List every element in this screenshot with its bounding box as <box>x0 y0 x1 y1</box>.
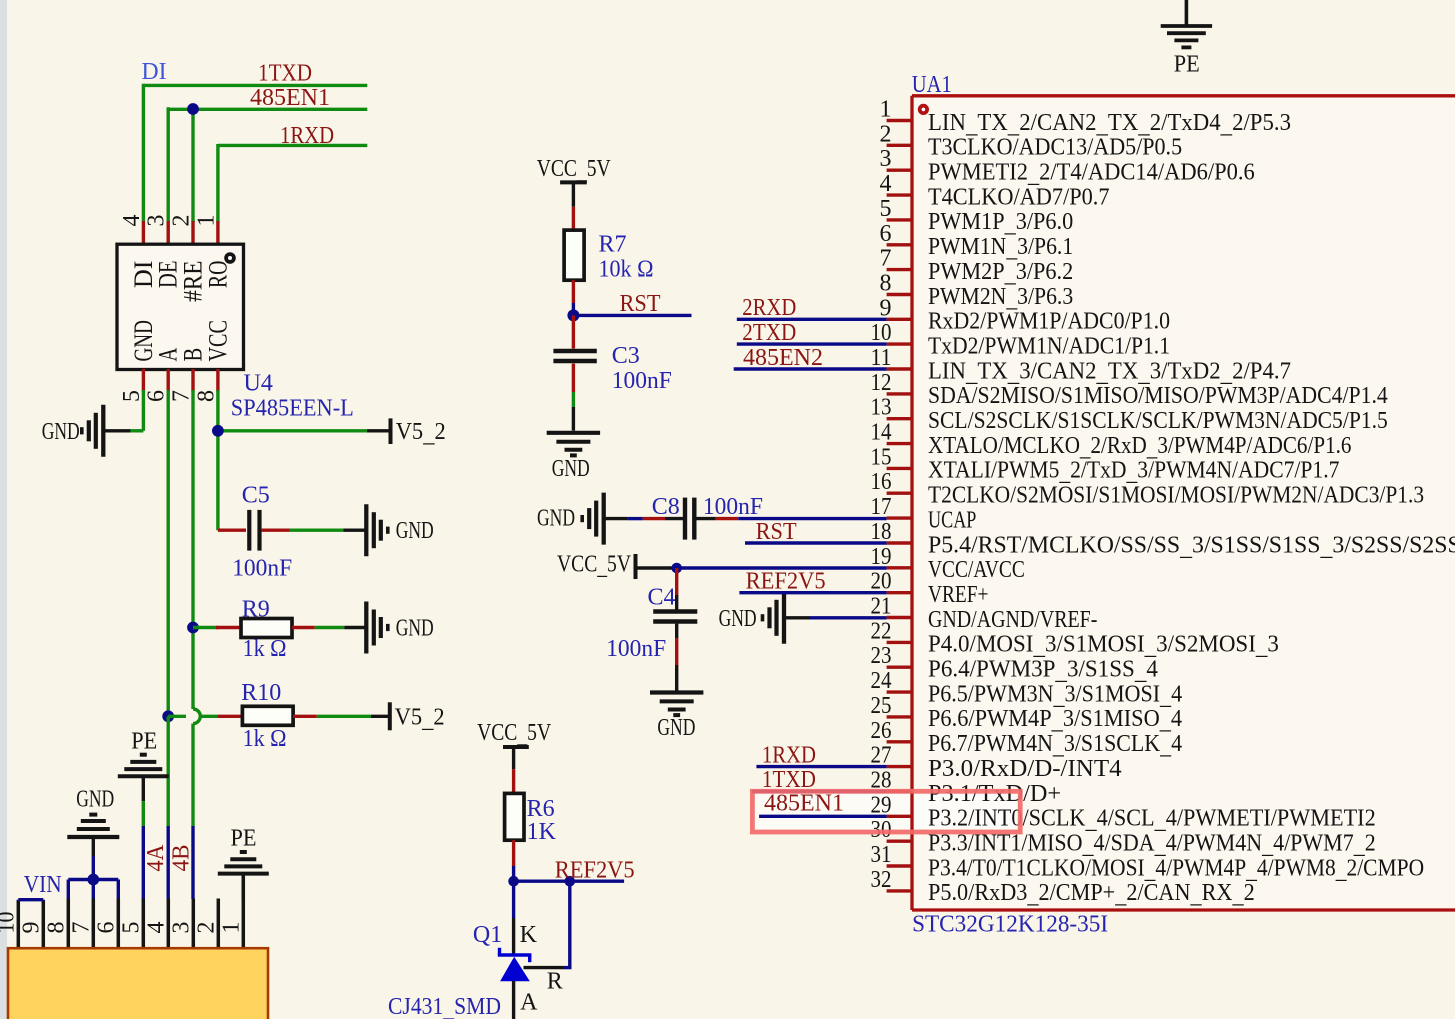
svg-text:10k Ω: 10k Ω <box>599 257 654 283</box>
svg-text:A: A <box>520 990 538 1016</box>
svg-text:GND: GND <box>42 419 80 445</box>
svg-text:6: 6 <box>144 390 170 402</box>
svg-text:14: 14 <box>871 420 892 446</box>
svg-text:RO: RO <box>203 261 232 289</box>
svg-text:P3.1/TxD/D+: P3.1/TxD/D+ <box>928 781 1061 807</box>
svg-text:C4: C4 <box>648 585 676 611</box>
svg-text:7: 7 <box>880 246 892 272</box>
svg-text:17: 17 <box>871 494 892 520</box>
svg-text:SCL/S2SCLK/S1SCLK/SCLK/PWM3N/A: SCL/S2SCLK/S1SCLK/SCLK/PWM3N/ADC5/P1.5 <box>928 408 1388 434</box>
svg-text:11: 11 <box>871 345 892 371</box>
svg-text:R: R <box>547 969 563 995</box>
svg-text:PE: PE <box>1174 52 1200 78</box>
svg-text:PE: PE <box>231 826 257 852</box>
svg-text:VCC/AVCC: VCC/AVCC <box>928 557 1025 583</box>
svg-text:21: 21 <box>871 594 892 620</box>
svg-text:100nF: 100nF <box>612 368 672 394</box>
svg-text:8: 8 <box>193 390 219 402</box>
svg-text:2TXD: 2TXD <box>742 320 796 346</box>
svg-text:VCC: VCC <box>203 320 232 361</box>
svg-text:UA1: UA1 <box>912 72 952 98</box>
svg-text:15: 15 <box>871 444 892 470</box>
svg-text:REF2V5: REF2V5 <box>555 858 635 884</box>
svg-text:PE: PE <box>131 729 157 755</box>
svg-text:VCC_5V: VCC_5V <box>557 551 632 580</box>
svg-text:9: 9 <box>18 922 44 934</box>
svg-text:RST: RST <box>756 519 797 545</box>
svg-text:DI: DI <box>142 59 167 85</box>
svg-text:8: 8 <box>43 922 69 934</box>
svg-text:22: 22 <box>871 618 892 644</box>
svg-text:SDA/S2MISO/S1MISO/MISO/PWM3P/A: SDA/S2MISO/S1MISO/MISO/PWM3P/ADC4/P1.4 <box>928 383 1388 409</box>
svg-text:P5.0/RxD3_2/CMP+_2/CAN_RX_2: P5.0/RxD3_2/CMP+_2/CAN_RX_2 <box>928 880 1255 909</box>
svg-text:GND: GND <box>719 606 757 632</box>
svg-text:U4: U4 <box>244 371 273 397</box>
svg-text:20: 20 <box>871 569 892 595</box>
svg-text:2: 2 <box>193 922 219 934</box>
svg-text:4A: 4A <box>143 844 169 872</box>
svg-text:10: 10 <box>0 912 19 934</box>
svg-text:6: 6 <box>93 922 119 934</box>
svg-text:RST: RST <box>620 291 661 317</box>
svg-text:1: 1 <box>193 215 219 227</box>
svg-text:12: 12 <box>871 370 892 396</box>
svg-text:V5_2: V5_2 <box>396 419 446 448</box>
svg-text:TxD2/PWM1N/ADC1/P1.1: TxD2/PWM1N/ADC1/P1.1 <box>928 333 1170 359</box>
svg-text:18: 18 <box>871 519 892 545</box>
svg-text:1RXD: 1RXD <box>280 123 334 149</box>
svg-text:P3.0/RxD/D-/INT4: P3.0/RxD/D-/INT4 <box>928 756 1122 782</box>
svg-text:REF2V5: REF2V5 <box>746 568 826 594</box>
svg-text:27: 27 <box>871 743 892 769</box>
svg-text:GND/AGND/VREF-: GND/AGND/VREF- <box>928 607 1097 633</box>
svg-text:8: 8 <box>880 271 892 297</box>
svg-text:1k Ω: 1k Ω <box>243 726 287 752</box>
svg-text:25: 25 <box>871 693 892 719</box>
svg-text:23: 23 <box>871 643 892 669</box>
svg-text:SP485EEN-L: SP485EEN-L <box>231 396 354 422</box>
svg-text:R7: R7 <box>599 232 627 258</box>
svg-text:1k Ω: 1k Ω <box>243 636 287 662</box>
svg-text:4: 4 <box>119 215 145 227</box>
svg-text:2: 2 <box>880 121 892 147</box>
svg-text:T2CLKO/S2MOSI/S1MOSI/MOSI/PWM2: T2CLKO/S2MOSI/S1MOSI/MOSI/PWM2N/ADC3/P1.… <box>928 483 1424 509</box>
svg-text:10: 10 <box>871 320 892 346</box>
svg-text:GND: GND <box>657 715 695 741</box>
svg-text:C8: C8 <box>652 494 680 520</box>
svg-text:GND: GND <box>537 506 575 532</box>
svg-text:485EN1: 485EN1 <box>250 85 330 111</box>
svg-text:3: 3 <box>168 922 194 934</box>
svg-text:2RXD: 2RXD <box>742 295 796 321</box>
svg-text:24: 24 <box>871 668 892 694</box>
svg-text:C3: C3 <box>612 343 640 369</box>
svg-text:GND: GND <box>396 616 434 642</box>
svg-text:VREF+: VREF+ <box>928 582 989 608</box>
svg-text:9: 9 <box>880 295 892 321</box>
svg-text:R9: R9 <box>242 597 270 623</box>
svg-text:32: 32 <box>871 867 892 893</box>
svg-text:GND: GND <box>396 518 434 544</box>
svg-text:4: 4 <box>880 171 892 197</box>
svg-text:T3CLKO/ADC13/AD5/P0.5: T3CLKO/ADC13/AD5/P0.5 <box>928 135 1182 161</box>
svg-text:7: 7 <box>68 922 94 934</box>
svg-text:GND: GND <box>76 787 114 813</box>
svg-text:3: 3 <box>880 146 892 172</box>
svg-text:1K: 1K <box>527 819 557 845</box>
svg-text:R10: R10 <box>241 680 281 706</box>
svg-text:3: 3 <box>144 215 170 227</box>
svg-text:GND: GND <box>552 456 590 482</box>
svg-text:T4CLKO/AD7/P0.7: T4CLKO/AD7/P0.7 <box>928 184 1110 210</box>
svg-text:C5: C5 <box>242 483 270 509</box>
svg-text:485EN2: 485EN2 <box>743 345 823 371</box>
svg-text:VIN: VIN <box>24 872 62 898</box>
svg-text:5: 5 <box>118 922 144 934</box>
svg-text:4: 4 <box>143 922 169 934</box>
svg-text:1: 1 <box>218 922 244 934</box>
svg-text:7: 7 <box>169 390 195 402</box>
svg-text:6: 6 <box>880 221 892 247</box>
svg-text:1RXD: 1RXD <box>762 742 816 768</box>
svg-text:13: 13 <box>871 395 892 421</box>
svg-text:4B: 4B <box>169 845 195 872</box>
svg-text:19: 19 <box>871 544 892 570</box>
svg-text:100nF: 100nF <box>232 556 292 582</box>
svg-text:16: 16 <box>871 469 892 495</box>
svg-text:K: K <box>520 922 538 948</box>
svg-text:Q1: Q1 <box>473 922 502 948</box>
svg-text:VCC_5V: VCC_5V <box>477 720 552 749</box>
svg-text:100nF: 100nF <box>606 636 666 662</box>
svg-text:RxD2/PWM1P/ADC0/P1.0: RxD2/PWM1P/ADC0/P1.0 <box>928 309 1170 335</box>
svg-text:31: 31 <box>871 842 892 868</box>
svg-text:V5_2: V5_2 <box>395 704 445 733</box>
svg-text:UCAP: UCAP <box>928 507 976 533</box>
svg-text:100nF: 100nF <box>703 494 763 520</box>
svg-text:VCC_5V: VCC_5V <box>537 156 612 185</box>
svg-text:29: 29 <box>871 792 892 818</box>
svg-text:5: 5 <box>119 390 145 402</box>
svg-text:2: 2 <box>169 215 195 227</box>
svg-text:1: 1 <box>880 97 892 123</box>
svg-text:26: 26 <box>871 718 892 744</box>
svg-text:1TXD: 1TXD <box>258 60 312 86</box>
svg-text:485EN1: 485EN1 <box>764 791 844 817</box>
svg-text:STC32G12K128-35I: STC32G12K128-35I <box>912 912 1108 938</box>
svg-text:CJ431_SMD: CJ431_SMD <box>388 994 501 1019</box>
svg-text:5: 5 <box>880 196 892 222</box>
